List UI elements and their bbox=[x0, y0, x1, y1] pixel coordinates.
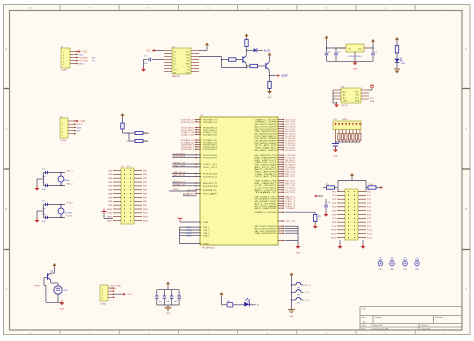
svg-text:JP2: JP2 bbox=[297, 287, 300, 289]
U1 VCAP power tee bbox=[178, 218, 210, 224]
U4 value label 24C02 bbox=[341, 105, 348, 107]
resistor R3 base bbox=[229, 58, 243, 61]
svg-text:GND_OUT: GND_OUT bbox=[173, 165, 186, 167]
net label right of capacitor bank bbox=[181, 297, 183, 299]
capacitor C2 bbox=[42, 182, 65, 191]
test points TP1-TP4 bbox=[378, 257, 419, 271]
svg-text:GND: GND bbox=[290, 316, 295, 318]
J3 pin labels bbox=[331, 191, 373, 239]
svg-text:104: 104 bbox=[166, 301, 169, 303]
capacitor C5 bbox=[325, 48, 332, 61]
svg-text:PC12: PC12 bbox=[367, 237, 373, 239]
svg-text:K_IN: K_IN bbox=[144, 133, 149, 135]
U1 left pins bbox=[172, 119, 201, 196]
svg-text:GND_IO: GND_IO bbox=[173, 163, 186, 165]
svg-text:VUSB: VUSB bbox=[203, 243, 209, 245]
capacitor C4 bbox=[144, 56, 165, 65]
svg-text:T1O: T1O bbox=[186, 57, 190, 59]
svg-text:P/CLK/T1OS/KOSO: P/CLK/T1OS/KOSO bbox=[173, 153, 185, 155]
transistor Q2 bbox=[266, 60, 270, 76]
capacitor C15 bbox=[177, 290, 181, 305]
svg-text:TP4: TP4 bbox=[415, 257, 418, 259]
svg-text:RC3/AN_CC_2N2: RC3/AN_CC_2N2 bbox=[181, 133, 195, 136]
J4 designator bbox=[121, 166, 131, 168]
svg-text:RB0/LVB/CC_IN: RB0/LVB/CC_IN bbox=[203, 183, 218, 185]
svg-text:D: D bbox=[5, 47, 7, 51]
ground at C4 bbox=[141, 67, 146, 72]
net label SPKR bbox=[34, 278, 48, 288]
svg-text:C: C bbox=[5, 127, 7, 131]
wire to Q2 base bbox=[247, 65, 251, 67]
resistor R10 right of J3 bbox=[366, 184, 383, 189]
svg-text:PROG: PROG bbox=[110, 288, 116, 290]
svg-text:GND: GND bbox=[415, 269, 420, 271]
svg-text:OSC_OUT: OSC_OUT bbox=[203, 167, 218, 169]
J5 wire to VCC bbox=[114, 293, 133, 296]
svg-text:GND: GND bbox=[79, 63, 84, 65]
svg-text:GND_IN_CK: GND_IN_CK bbox=[173, 175, 186, 177]
svg-text:VCC: VCC bbox=[146, 50, 151, 52]
U1 left pin names bbox=[203, 119, 220, 196]
capacitor C7 bbox=[371, 48, 378, 61]
wire to base resistor bbox=[221, 59, 229, 60]
wire Q1 collector bbox=[246, 47, 247, 54]
jumper row 2 bbox=[291, 290, 310, 297]
svg-text:OA/T1_TXPW: OA/T1_TXPW bbox=[285, 220, 295, 223]
U4 left bus to ground bbox=[333, 90, 339, 107]
capacitor C12 bbox=[155, 290, 162, 305]
svg-text:USB_3: USB_3 bbox=[186, 233, 192, 235]
U2 value label MAX232 bbox=[172, 75, 181, 78]
power input to U3 bbox=[325, 36, 347, 49]
svg-text:File:: File: bbox=[362, 329, 366, 331]
capacitor C13 bbox=[163, 290, 170, 305]
U3 output wire bbox=[370, 43, 374, 49]
svg-text:USB_4: USB_4 bbox=[203, 236, 210, 238]
resistor R11 bbox=[227, 301, 244, 307]
svg-text:C2-: C2- bbox=[173, 63, 177, 65]
capacitor bank rails bbox=[157, 290, 179, 305]
svg-text:AB/C1_2N1/PCK: AB/C1_2N1/PCK bbox=[285, 191, 295, 194]
svg-text:BUZZ: BUZZ bbox=[264, 49, 271, 52]
capacitor C9 bbox=[42, 201, 65, 211]
svg-text:R11: R11 bbox=[227, 301, 230, 303]
U1 right pins bbox=[278, 118, 297, 241]
power arrow above Q1 bbox=[245, 34, 249, 39]
U3 ground pin bbox=[353, 56, 358, 71]
JP1 bottom bus bbox=[336, 141, 361, 143]
diode D1 row bbox=[127, 131, 150, 134]
svg-text:GND: GND bbox=[267, 97, 272, 99]
svg-text:C:\Design\mcu.ddb: C:\Design\mcu.ddb bbox=[371, 329, 389, 331]
wire C4 to ground bbox=[143, 60, 145, 70]
power VCC at J2 pin1 bbox=[76, 120, 85, 123]
net label T1OSO bbox=[66, 203, 73, 205]
U1 bottom-left wires bbox=[180, 227, 211, 245]
svg-text:GND: GND bbox=[296, 253, 301, 255]
resistor R7 bbox=[395, 37, 399, 58]
svg-text:GND: GND bbox=[60, 309, 65, 311]
svg-text:GND: GND bbox=[390, 269, 395, 271]
capacitor C8 left of J3 bbox=[324, 199, 331, 214]
svg-text:PD12: PD12 bbox=[331, 237, 337, 239]
svg-text:A: A bbox=[5, 287, 7, 291]
wire U1 row212 with resistor R8 bbox=[285, 212, 322, 221]
svg-text:D: D bbox=[465, 47, 467, 51]
ground rail under U3 bbox=[327, 60, 374, 62]
J5 value label bbox=[100, 304, 107, 306]
net label J2 pin4 bbox=[77, 131, 81, 133]
svg-text:25-May-2009: 25-May-2009 bbox=[371, 325, 384, 327]
svg-text:PD10: PD10 bbox=[331, 230, 337, 232]
J4 bottom wire to power bbox=[102, 209, 114, 219]
svg-text:VCAP: VCAP bbox=[203, 221, 209, 224]
svg-text:GND: GND bbox=[333, 156, 338, 158]
header J4 bbox=[113, 168, 142, 224]
capacitor C14 bbox=[170, 290, 177, 305]
svg-text:GND: GND bbox=[379, 269, 384, 271]
svg-text:T2I: T2I bbox=[187, 69, 190, 71]
svg-text:P3.1/TXD: P3.1/TXD bbox=[79, 60, 89, 62]
svg-text:USB_1: USB_1 bbox=[186, 227, 192, 229]
J3 top loop wire bbox=[338, 177, 366, 192]
resistor R6 bbox=[268, 76, 271, 89]
IC U1 PIC18F4520 body bbox=[200, 117, 278, 245]
svg-text:VCC: VCC bbox=[128, 294, 133, 296]
header J3 bbox=[337, 189, 366, 240]
net label J1 pin4 bbox=[79, 60, 96, 62]
svg-text:Vin: Vin bbox=[348, 48, 351, 50]
svg-text:SPK: SPK bbox=[64, 290, 69, 292]
svg-text:AB1_3/CT1: AB1_3/CT1 bbox=[285, 175, 296, 178]
wire Q3 emitter down bbox=[46, 286, 62, 303]
J5 labels bbox=[110, 286, 121, 291]
title block text bbox=[362, 307, 444, 330]
net label J2 pin3 bbox=[77, 126, 82, 129]
svg-text:CHART1_OSCPW: CHART1_OSCPW bbox=[255, 211, 277, 214]
wire junction down bbox=[222, 57, 248, 69]
connector J2 (CON5) bbox=[60, 118, 76, 138]
svg-text:TP3: TP3 bbox=[403, 257, 406, 259]
svg-text:Number: Number bbox=[375, 317, 382, 319]
svg-text:RSTN: RSTN bbox=[173, 189, 179, 191]
svg-text:USB_3: USB_3 bbox=[203, 233, 210, 235]
svg-text:104: 104 bbox=[174, 301, 177, 303]
resistor R4 bbox=[245, 38, 248, 47]
ground below diode chain bbox=[288, 310, 295, 318]
svg-text:GND: GND bbox=[186, 54, 191, 56]
net label OSC1 bbox=[66, 171, 73, 173]
svg-text:OSC_2: OSC_2 bbox=[66, 184, 73, 186]
U4 right bus to power bbox=[369, 85, 374, 90]
svg-text:ANDN: ANDN bbox=[183, 193, 189, 196]
J3 bottom-right ground bbox=[361, 240, 366, 249]
ground below C8 bbox=[324, 212, 329, 217]
resistor R9 left of J3 bbox=[323, 184, 337, 189]
resistor network RN1 bbox=[336, 130, 362, 143]
power VCC at J1 pin1 bbox=[78, 50, 87, 53]
svg-text:ROSTN: ROSTN bbox=[203, 186, 218, 188]
svg-text:USB_1: USB_1 bbox=[203, 227, 210, 229]
svg-text:R1O: R1O bbox=[186, 63, 191, 65]
power above Q3 bbox=[53, 263, 57, 272]
Y2 ground branch bbox=[35, 205, 44, 223]
wire U2 TX out bbox=[199, 56, 222, 58]
svg-text:RC0/LVB/CC_OUT: RC0/LVB/CC_OUT bbox=[173, 184, 186, 186]
svg-text:TNA1: TNA1 bbox=[285, 207, 297, 210]
svg-text:VCC: VCC bbox=[81, 121, 86, 123]
U1 right pin names bbox=[255, 118, 279, 235]
title block frame bbox=[360, 307, 462, 331]
svg-text:RC3/AN3_2N2: RC3/AN3_2N2 bbox=[203, 133, 218, 136]
svg-text:P/CLK/T1OS/KOSO: P/CLK/T1OS/KOSO bbox=[203, 155, 217, 157]
svg-text:GND: GND bbox=[353, 69, 358, 71]
U1 value label bbox=[202, 248, 215, 250]
speaker LS1 bbox=[51, 283, 68, 294]
net label BUZZ bbox=[264, 49, 271, 52]
connector J5 bbox=[100, 285, 115, 301]
svg-text:GND: GND bbox=[166, 313, 171, 315]
svg-text:A: A bbox=[465, 287, 467, 291]
transistor Q1 bbox=[243, 53, 247, 68]
svg-text:GND_IN_B: GND_IN_B bbox=[173, 172, 186, 174]
svg-text:P/CLK/CKI/XTPLN: P/CLK/CKI/XTPLN bbox=[173, 156, 185, 158]
svg-text:VCC: VCC bbox=[186, 51, 191, 53]
svg-text:VCC: VCC bbox=[355, 91, 360, 93]
J2 value label bbox=[60, 140, 67, 142]
jumper row 3 bbox=[291, 297, 310, 304]
svg-text:TXD: TXD bbox=[79, 54, 84, 56]
IC U4 24C02 bbox=[333, 88, 369, 103]
IC U2 MAX232 bbox=[164, 48, 199, 74]
power arrow left of J3 bbox=[314, 195, 323, 198]
ground below JP1 bbox=[333, 146, 338, 158]
svg-text:C: C bbox=[465, 127, 467, 131]
svg-text:TP1: TP1 bbox=[379, 257, 382, 259]
power arrow at U3 output bbox=[371, 39, 375, 44]
power above diode chain bbox=[290, 273, 294, 310]
power above IR bbox=[220, 292, 228, 305]
svg-text:P3.0/RXD: P3.0/RXD bbox=[79, 57, 89, 59]
header JP1 bbox=[333, 121, 361, 130]
net label J1 pin5 bbox=[79, 63, 84, 65]
svg-text:RC1/CCP2_RX: RC1/CCP2_RX bbox=[181, 122, 195, 124]
svg-text:BEEP: BEEP bbox=[282, 75, 289, 78]
svg-text:Sheet of: Sheet of bbox=[421, 324, 429, 327]
svg-text:104: 104 bbox=[159, 301, 162, 303]
ground below LED bbox=[394, 63, 400, 74]
svg-text:RC3/LVB_IN_B: RC3/LVB_IN_B bbox=[203, 174, 218, 176]
Y1 ground branch bbox=[35, 173, 44, 191]
J4 pin labels bbox=[107, 169, 149, 222]
J3 bottom-left ground bbox=[338, 240, 343, 249]
net label U4 SCL bbox=[370, 98, 375, 100]
svg-text:USB_4: USB_4 bbox=[186, 236, 192, 238]
svg-text:Revision: Revision bbox=[436, 317, 444, 319]
diode D3 bbox=[247, 48, 264, 52]
svg-text:TP2: TP2 bbox=[390, 257, 393, 259]
wire U1 RSTN row bbox=[169, 189, 197, 191]
capacitor C6 bbox=[334, 48, 341, 61]
U4 designator bbox=[341, 86, 345, 88]
svg-text:GND: GND bbox=[343, 100, 348, 102]
svg-text:PIC18F4520: PIC18F4520 bbox=[202, 248, 215, 250]
svg-text:PGM/OSART1_RX: PGM/OSART1_RX bbox=[203, 121, 218, 124]
J1 value label CON5 bbox=[61, 70, 68, 72]
svg-text:Date:: Date: bbox=[362, 324, 367, 327]
svg-text:CON5: CON5 bbox=[61, 70, 68, 72]
ground at speaker bbox=[60, 300, 65, 310]
svg-text:SPKR: SPKR bbox=[34, 285, 40, 287]
U1 designator bbox=[200, 115, 204, 117]
net label BEEP bbox=[269, 74, 288, 77]
svg-text:JP3: JP3 bbox=[297, 295, 300, 297]
net label T1OSI bbox=[66, 216, 72, 218]
svg-text:T1OSI: T1OSI bbox=[66, 216, 72, 218]
svg-text:RC3/LVB_IN_CK: RC3/LVB_IN_CK bbox=[203, 176, 218, 178]
U1 bottom-right wires to ground bus bbox=[285, 226, 298, 246]
wire U1 ANDN row bbox=[183, 193, 197, 196]
power arrow above U2 bbox=[205, 43, 209, 48]
power above capacitor bank bbox=[166, 282, 170, 290]
svg-text:SDA: SDA bbox=[355, 99, 360, 102]
net label J1 pin3 bbox=[79, 57, 96, 59]
diode D2 row bbox=[127, 133, 149, 143]
svg-text:T2O: T2O bbox=[173, 69, 177, 71]
wire U2 pin1 to VCC bbox=[146, 49, 164, 52]
net label J1 pin2 bbox=[79, 54, 84, 56]
J1 designator bbox=[61, 47, 64, 49]
svg-text:DB1_AN4PW: DB1_AN4PW bbox=[285, 149, 295, 152]
net label U4 SDA bbox=[370, 100, 375, 103]
svg-text:R1I: R1I bbox=[187, 60, 191, 62]
wire U2 pin9 to power bbox=[199, 47, 207, 51]
net label J2 pin2 bbox=[77, 124, 83, 126]
svg-text:RXL_IX: RXL_IX bbox=[304, 285, 312, 287]
power at J3 top bbox=[350, 173, 354, 178]
J2 designator bbox=[60, 117, 63, 119]
U2 designator bbox=[172, 46, 176, 48]
svg-text:RC3/SOSE4/TXE/CKAN/PT_RX: RC3/SOSE4/TXE/CKAN/PT_RX bbox=[181, 148, 194, 151]
ground below Q2 bbox=[267, 88, 272, 99]
svg-text:AB(C)1_2N(A)1/PN3/W: AB(C)1_2N(A)1/PN3/W bbox=[255, 207, 277, 210]
capacitor at JP1 bbox=[332, 142, 339, 146]
net label IR bbox=[256, 305, 259, 307]
svg-text:IDC: IDC bbox=[127, 166, 131, 168]
svg-text:USB_2: USB_2 bbox=[186, 230, 192, 232]
svg-text:C1-: C1- bbox=[173, 57, 177, 59]
svg-text:T1I: T1I bbox=[187, 66, 190, 68]
svg-text:OSC_1: OSC_1 bbox=[66, 171, 73, 173]
svg-text:PC10: PC10 bbox=[367, 230, 373, 232]
border zone dividers bbox=[4, 47, 471, 291]
svg-text:R2I: R2I bbox=[173, 72, 177, 74]
ground below capacitor bank bbox=[165, 305, 172, 315]
svg-text:R2O: R2O bbox=[186, 72, 191, 74]
capacitor C1 bbox=[42, 169, 65, 179]
svg-text:USB_2: USB_2 bbox=[203, 230, 210, 232]
crystal Y1 bbox=[58, 172, 70, 186]
svg-text:VCAP: VCAP bbox=[203, 193, 219, 196]
svg-text:CON5: CON5 bbox=[60, 140, 67, 142]
net label OSC2 bbox=[66, 184, 73, 186]
LED D4 bbox=[395, 58, 406, 65]
svg-text:JP4: JP4 bbox=[297, 302, 300, 304]
transistor Q3 bbox=[48, 271, 55, 284]
jumper row 1 bbox=[291, 282, 312, 289]
svg-text:T1OSO: T1OSO bbox=[66, 203, 73, 205]
IR diode D5 bbox=[244, 298, 255, 306]
svg-text:4MHz: 4MHz bbox=[65, 180, 70, 182]
IC U3 L7805 bbox=[340, 44, 370, 56]
connector J1 (CON5) bbox=[61, 48, 78, 68]
svg-text:TNAB-P: TNAB-P bbox=[255, 191, 279, 194]
svg-text:SDA: SDA bbox=[77, 126, 82, 129]
power arrow above Q2 bbox=[268, 53, 272, 60]
svg-text:MAX232: MAX232 bbox=[172, 75, 181, 78]
capacitor C10 bbox=[42, 214, 65, 223]
svg-text:B: B bbox=[5, 207, 7, 211]
svg-text:CON4: CON4 bbox=[100, 304, 107, 306]
svg-text:LED: LED bbox=[401, 63, 406, 65]
svg-text:LED8: LED8 bbox=[342, 119, 348, 121]
svg-text:Drawn By:: Drawn By: bbox=[421, 329, 431, 331]
ground below U1 right bbox=[296, 244, 301, 255]
pull-up resistor R mid-left bbox=[121, 113, 136, 133]
svg-text:RC3/SOSE4/TX/CKAN_RX: RC3/SOSE4/TX/CKAN_RX bbox=[203, 148, 217, 151]
svg-text:32.768K: 32.768K bbox=[65, 213, 73, 215]
svg-text:GND: GND bbox=[403, 269, 408, 271]
svg-text:V-: V- bbox=[173, 66, 175, 68]
crystal Y2 bbox=[58, 204, 73, 218]
svg-text:B: B bbox=[465, 207, 467, 211]
svg-text:OK1_A/1_PW: OK1_A/1_PW bbox=[255, 175, 277, 178]
JP1 designator bbox=[333, 119, 348, 121]
svg-text:BM_2/AN3_TN4/PW: BM_2/AN3_TN4/PW bbox=[255, 149, 277, 152]
svg-text:TNA_CH/ZN1/2HTBK: TNA_CH/ZN1/2HTBK bbox=[255, 232, 278, 235]
U3 value label bbox=[348, 56, 362, 58]
resistor R5 bbox=[250, 64, 266, 67]
svg-text:P/CLK/CKI/XTPLN: P/CLK/CKI/XTPLN bbox=[203, 158, 217, 160]
svg-text:ISP_DOWN: ISP_DOWN bbox=[110, 286, 121, 288]
svg-text:RB0/LVB/CC_IN: RB0/LVB/CC_IN bbox=[173, 182, 185, 184]
svg-text:Vout: Vout bbox=[358, 47, 362, 50]
svg-text:K_O: K_O bbox=[144, 141, 149, 143]
ground at R8 bbox=[313, 222, 318, 229]
svg-text:24C02: 24C02 bbox=[341, 105, 348, 107]
svg-text:VCC: VCC bbox=[83, 52, 88, 54]
svg-text:OSC_IO: OSC_IO bbox=[203, 164, 218, 166]
svg-text:SCLK: SCLK bbox=[77, 124, 83, 126]
svg-text:SDA: SDA bbox=[370, 100, 375, 103]
